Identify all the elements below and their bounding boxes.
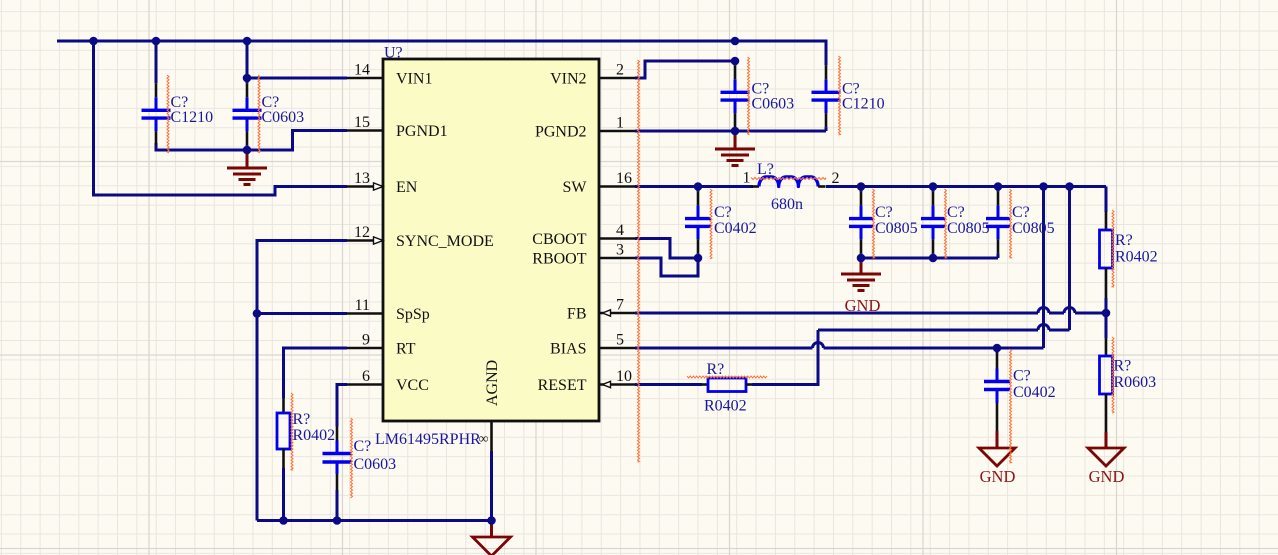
wire VIN1 branch (247, 41, 347, 78)
wire PGND2 line (635, 130, 826, 133)
svg-text:AGND: AGND (484, 360, 501, 406)
svg-text:C0805: C0805 (875, 220, 918, 237)
wire RBOOT detour (635, 258, 698, 276)
resistor R0402 reset (702, 378, 752, 392)
pin 7 FB (599, 310, 635, 316)
svg-text:C?: C? (1012, 204, 1030, 221)
inductor L1 (751, 177, 826, 187)
wire AGND pin drop (490, 451, 493, 521)
svg-text:C0603: C0603 (752, 96, 795, 113)
svg-text:13: 13 (354, 170, 370, 187)
capacitor C1210 input right (812, 47, 841, 131)
svg-text:C?: C? (1013, 368, 1031, 385)
svg-text:GND: GND (845, 296, 881, 315)
pin 14 VIN1 (347, 77, 383, 80)
pin 10 RESET (599, 381, 635, 387)
svg-text:VIN2: VIN2 (550, 71, 586, 88)
svg-text:SYNC_MODE: SYNC_MODE (396, 233, 494, 250)
svg-text:C?: C? (354, 438, 372, 455)
wire BIAS riser to VOUT (1042, 187, 1045, 349)
svg-text:C0402: C0402 (714, 220, 757, 237)
wire VIN top bus (57, 40, 826, 43)
svg-text:SW: SW (563, 179, 588, 196)
wire FB line (635, 308, 1106, 314)
pin 9 RT (347, 347, 383, 350)
svg-text:7: 7 (616, 297, 624, 314)
ground earth input-left (227, 150, 267, 185)
resistor R0603 fb-bottom (1100, 338, 1113, 448)
svg-text:6: 6 (362, 368, 370, 385)
pin 12 SYNC_MODE (347, 237, 383, 244)
wire right bypass top (735, 41, 826, 47)
wire VOUT drop to R0402 (1105, 187, 1108, 213)
svg-text:SpSp: SpSp (396, 306, 430, 323)
pin 11 SpSp (347, 312, 383, 315)
wire EN drop from VIN bus (94, 41, 348, 195)
svg-text:C?: C? (714, 204, 732, 221)
svg-text:C1210: C1210 (171, 109, 214, 126)
capacitor C0805 out2 (921, 187, 945, 259)
capacitor C1210 input left (142, 47, 171, 150)
wire pullup riser to VOUT (1068, 187, 1071, 331)
svg-text:R0402: R0402 (293, 427, 336, 444)
wire SYNC_MODE drop (257, 241, 347, 521)
svg-text:4: 4 (616, 222, 624, 239)
svg-text:LM61495RPHR: LM61495RPHR (375, 431, 481, 448)
ground triangle bias (979, 448, 1015, 466)
wire R0402 to FB node (1105, 298, 1108, 313)
svg-text:R0402: R0402 (1115, 249, 1158, 266)
svg-text:C1210: C1210 (842, 96, 885, 113)
svg-text:R0603: R0603 (1114, 374, 1157, 391)
capacitor C0603 input right (721, 61, 750, 131)
svg-text:GND: GND (1089, 467, 1125, 486)
svg-text:15: 15 (354, 114, 370, 131)
capacitor C0402 bias (984, 348, 1010, 448)
svg-text:16: 16 (616, 170, 632, 187)
wire AGND rail (257, 519, 492, 522)
svg-text:C0805: C0805 (1012, 220, 1055, 237)
svg-text:R?: R? (293, 411, 311, 428)
capacitor C0603 input left (233, 78, 262, 150)
resistor R0402 rt (277, 398, 290, 468)
ground earth input-right (715, 131, 755, 166)
svg-text:680n: 680n (771, 196, 803, 213)
ground earth output (841, 258, 881, 291)
svg-text:1: 1 (616, 115, 624, 132)
wire FB node to R0603 (1105, 313, 1108, 338)
svg-text:RT: RT (396, 341, 416, 358)
wire SpSp branch (257, 312, 347, 315)
svg-text:R?: R? (1114, 358, 1132, 375)
svg-text:C0402: C0402 (1013, 384, 1056, 401)
wire C0603 bottom to rail (336, 490, 339, 521)
svg-text:GND: GND (980, 467, 1016, 486)
svg-text:CBOOT: CBOOT (532, 231, 586, 248)
wire SW to inductor (635, 185, 753, 188)
svg-text:12: 12 (354, 224, 370, 241)
wire RESET to resistor (635, 383, 702, 386)
pin 3 RBOOT (599, 257, 635, 260)
pin 16 SW (599, 185, 635, 188)
wire C0805 ground rail (861, 257, 998, 260)
pin AGND stub (490, 421, 493, 451)
svg-text:11: 11 (355, 297, 370, 314)
compile markers (orange squiggles) (167, 56, 1114, 498)
svg-text:1: 1 (743, 170, 751, 187)
svg-text:R0402: R0402 (704, 398, 747, 415)
svg-text:RBOOT: RBOOT (532, 251, 586, 268)
ground triangle agnd (473, 521, 511, 555)
svg-text:5: 5 (616, 332, 624, 349)
pin 1 PGND2 (599, 130, 635, 133)
svg-text:9: 9 (362, 332, 370, 349)
svg-text:C0805: C0805 (947, 220, 990, 237)
wire BIAS line (635, 343, 1044, 349)
svg-text:EN: EN (396, 179, 418, 196)
wire C1210 top tap (155, 41, 158, 47)
pin 4 CBOOT (599, 237, 635, 240)
op-amp U1 body LM61495RPHR (383, 59, 599, 421)
svg-text:RESET: RESET (538, 377, 587, 394)
svg-text:PGND1: PGND1 (396, 123, 448, 140)
svg-text:C?: C? (947, 204, 965, 221)
wire VOUT line (826, 185, 1106, 188)
svg-text:L?: L? (757, 161, 774, 178)
wire RESET pullup riser (752, 330, 818, 385)
capacitor C0603 vcc (323, 427, 352, 491)
capacitor C0805 out3 (986, 187, 1010, 259)
wire VIN2 jog (635, 61, 735, 78)
svg-text:∞: ∞ (479, 432, 489, 447)
svg-text:VCC: VCC (396, 377, 429, 394)
svg-text:14: 14 (354, 62, 370, 79)
svg-text:BIAS: BIAS (550, 341, 586, 358)
svg-text:FB: FB (567, 306, 587, 323)
svg-text:2: 2 (616, 62, 624, 79)
svg-text:U?: U? (384, 45, 403, 62)
wire RT drop (284, 348, 348, 398)
capacitor C0805 out1 (849, 187, 873, 259)
pin 6 VCC (347, 383, 383, 386)
pin 5 BIAS (599, 347, 635, 350)
svg-text:VIN1: VIN1 (396, 71, 432, 88)
wire PGND1 rail (156, 131, 347, 151)
svg-text:C0603: C0603 (354, 456, 397, 473)
pin 13 EN (347, 183, 383, 190)
ground triangle fb (1088, 448, 1124, 466)
resistor R0402 fb-top (1100, 212, 1113, 298)
svg-text:R?: R? (1115, 232, 1133, 249)
wire CBOOT path (635, 239, 698, 259)
svg-text:10: 10 (616, 368, 632, 385)
wire R0402 bottom to rail (282, 468, 285, 521)
pin 2 VIN2 (599, 77, 635, 80)
pin 15 PGND1 (347, 129, 383, 132)
svg-text:R?: R? (707, 361, 725, 378)
svg-text:C0603: C0603 (262, 109, 305, 126)
svg-text:2: 2 (832, 170, 840, 187)
capacitor C0402 cboot (685, 187, 711, 259)
svg-text:3: 3 (616, 242, 624, 259)
wire VCC drop (337, 385, 347, 427)
wire RESET pullup top (818, 325, 1070, 331)
svg-text:PGND2: PGND2 (535, 124, 587, 141)
svg-text:C?: C? (875, 204, 893, 221)
